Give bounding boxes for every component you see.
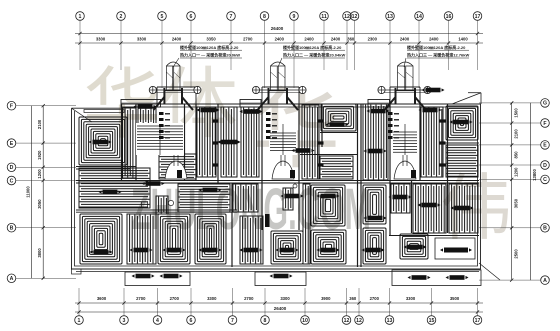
svg-text:3300: 3300	[406, 296, 416, 301]
axis bubble G right	[541, 99, 550, 108]
svg-text:3050: 3050	[37, 199, 42, 209]
label tag at 141,250	[134, 248, 149, 253]
axis bubble 7 bottom	[228, 316, 237, 325]
heating coil room 25	[449, 184, 478, 233]
axis bubble 2 top	[117, 12, 126, 21]
label tag at 145,106.5	[138, 104, 153, 109]
heating coil room 18	[233, 184, 258, 212]
valve mark	[318, 141, 324, 144]
top total dimension line	[75, 33, 483, 35]
label tag at 328,250	[321, 248, 336, 253]
wall y=166.5	[76, 166, 136, 168]
label tag at 430,110	[423, 108, 438, 113]
svg-text:F: F	[10, 104, 13, 110]
heating coil room 21	[311, 185, 345, 226]
svg-text:360: 360	[349, 296, 357, 301]
label tag at 143,276	[136, 274, 151, 279]
svg-text:11: 11	[321, 14, 327, 20]
axis bubble C left	[7, 176, 16, 185]
stair ladder	[392, 129, 418, 156]
svg-text:7: 7	[230, 14, 233, 20]
axis bubble E left	[7, 139, 16, 148]
wall y=154.5	[300, 154, 358, 156]
heating coil room 11	[421, 107, 443, 177]
axis bubble F right	[541, 119, 550, 128]
entrance bay walls	[389, 87, 391, 104]
heating coil room 7	[302, 105, 319, 179]
svg-text:3300: 3300	[280, 296, 290, 301]
svg-text:17: 17	[475, 14, 481, 20]
heating coil room 32	[311, 230, 346, 264]
wall y=169	[76, 168, 130, 170]
heating coil room 4	[197, 107, 216, 177]
label tag at 328,196	[321, 194, 336, 199]
svg-text:3300: 3300	[96, 37, 106, 42]
svg-text:1200: 1200	[514, 167, 519, 177]
bottom wall lower line	[76, 271, 479, 273]
bottom chain dimension line	[75, 302, 483, 304]
svg-text:2700: 2700	[136, 296, 146, 301]
valve mark	[213, 163, 219, 166]
riser duct pair	[398, 66, 405, 90]
svg-text:16: 16	[446, 14, 452, 20]
axis bubble 1 bottom	[75, 316, 84, 325]
left total dimension line	[31, 106, 33, 279]
svg-text:B: B	[543, 226, 547, 232]
svg-text:12: 12	[344, 318, 350, 324]
entrance door jambs	[395, 88, 397, 104]
svg-text:850: 850	[514, 151, 519, 159]
label tag at 229,142	[222, 140, 237, 145]
label tag at 100,142	[93, 140, 108, 145]
wall x=447.5	[447, 104, 449, 233]
wall x=196	[195, 104, 197, 180]
svg-text:12: 12	[344, 14, 350, 20]
annotation notes top	[173, 44, 469, 67]
svg-text:1920: 1920	[37, 150, 42, 160]
label tag at 373,250	[366, 248, 381, 253]
axis bubble 10 bottom	[301, 316, 310, 325]
label tag at 153,183.5	[146, 181, 161, 186]
label tag at 378,111	[371, 109, 386, 114]
svg-text:13: 13	[387, 14, 393, 20]
axis bubble 3 bottom	[120, 316, 129, 325]
axis bubble 17 bottom	[473, 316, 482, 325]
axis bubble 14 top	[415, 12, 424, 21]
svg-text:8: 8	[264, 318, 267, 324]
bottom total dimension line	[75, 311, 483, 313]
svg-text:26400: 26400	[271, 26, 284, 31]
heating coil room 16	[156, 196, 168, 214]
label tag at 251,250	[244, 248, 259, 253]
pipe room protrusion	[121, 100, 161, 108]
svg-text:15: 15	[429, 318, 435, 324]
axis bubble 12 top	[350, 12, 359, 21]
svg-text:3600: 3600	[97, 296, 107, 301]
axis bubble A left	[7, 274, 16, 283]
axis bubble 6 bottom	[187, 316, 196, 325]
heating coil room 33	[363, 228, 386, 264]
axis bubble 13 bottom	[385, 316, 394, 325]
svg-text:D: D	[543, 163, 547, 169]
svg-text:E: E	[543, 143, 547, 149]
window sill strip top-left	[84, 110, 124, 113]
label tag at 461,122	[454, 120, 469, 125]
stair ladder	[269, 130, 297, 155]
heating coil room 28	[158, 214, 190, 264]
svg-text:2400: 2400	[275, 37, 285, 42]
label tag at 171,276	[164, 274, 179, 279]
svg-text:14: 14	[416, 14, 422, 20]
heating coil room 27	[127, 214, 156, 264]
svg-text:2500: 2500	[514, 249, 519, 259]
heating coil room 12	[446, 106, 478, 140]
wall y=143	[443, 142, 479, 144]
label tag at 208,110	[201, 108, 216, 113]
svg-text:2400: 2400	[172, 37, 182, 42]
heating coil room 30	[240, 216, 263, 264]
watermark	[83, 60, 512, 249]
svg-text:A: A	[543, 278, 547, 284]
valve mark	[440, 163, 446, 166]
svg-text:热力入口三 — 采暖负荷滚12.76kW: 热力入口三 — 采暖负荷滚12.76kW	[407, 52, 469, 58]
wall x=361	[360, 104, 362, 267]
axis bubble 17 top	[473, 12, 482, 21]
svg-text:E: E	[10, 141, 14, 147]
label tag at 292,196	[285, 194, 300, 199]
svg-text:G: G	[543, 101, 547, 107]
axis bubble A right	[541, 276, 550, 285]
label tag at 287,250	[280, 248, 295, 253]
axis bubble D left	[7, 163, 16, 172]
svg-text:12: 12	[356, 318, 362, 324]
label tag at 303,150.5	[296, 148, 311, 153]
basin	[142, 202, 148, 207]
svg-text:3050: 3050	[514, 198, 519, 208]
label tag at 429,205	[422, 203, 437, 208]
heating coil room 17	[178, 184, 230, 212]
svg-text:2700: 2700	[244, 296, 254, 301]
wall y=235.5	[389, 235, 479, 237]
entrance flare walls	[258, 97, 269, 110]
entrance door jambs	[268, 88, 270, 104]
left chain dimension line	[42, 106, 44, 279]
heating coil room 10	[363, 104, 388, 180]
label tag at 419,277.5	[412, 275, 427, 280]
svg-text:D: D	[10, 165, 14, 171]
svg-text:2700: 2700	[370, 296, 380, 301]
wc fixture circle	[168, 200, 173, 205]
heating coil room 8	[321, 104, 356, 131]
svg-text:13800: 13800	[532, 169, 537, 181]
svg-text:12: 12	[352, 14, 358, 20]
heating coil room 15	[159, 154, 196, 179]
svg-text:2700: 2700	[243, 37, 253, 42]
wall y=132.5	[320, 132, 358, 134]
axis bubble 6 top	[187, 12, 196, 21]
svg-text:10: 10	[302, 318, 308, 324]
heating coil room 2	[123, 108, 137, 178]
heating coil room 31	[271, 231, 303, 264]
heating coil room 9	[320, 156, 353, 179]
wall x=184.5	[184, 104, 186, 180]
axis bubble B right	[541, 224, 550, 233]
svg-text:热力入口一 — 采暖负荷滚20.0kW: 热力入口一 — 采暖负荷滚20.0kW	[180, 52, 240, 58]
svg-text:A: A	[10, 276, 14, 282]
leader line	[173, 58, 179, 67]
entrance bay walls	[261, 87, 263, 104]
heating coil room 14	[79, 168, 150, 208]
label tag at 281,276	[274, 274, 289, 279]
leader line	[404, 58, 406, 67]
wall x=136	[135, 104, 137, 180]
svg-text:3300: 3300	[137, 37, 147, 42]
axis bubble 16 top	[444, 12, 453, 21]
label tag at 251,111.5	[244, 109, 259, 114]
wall y=180.5	[76, 180, 479, 182]
label tag at 433,90	[426, 88, 441, 93]
svg-text:6: 6	[190, 318, 193, 324]
svg-text:2400: 2400	[304, 37, 314, 42]
wall x=420	[419, 104, 421, 180]
interior walls	[72, 104, 482, 286]
svg-text:17: 17	[475, 318, 481, 324]
entrance canopy	[153, 89, 198, 91]
entrance canopy	[256, 89, 303, 91]
heating coil room 29	[195, 214, 226, 264]
axis bubble 1 top	[76, 12, 85, 21]
label tag at 210,250	[203, 248, 218, 253]
svg-text:13: 13	[387, 318, 393, 324]
label tag at 415,247	[408, 245, 423, 250]
axis bubble C right	[541, 175, 550, 184]
axis bubble 12 bottom	[342, 316, 351, 325]
axis bubble 11 top	[320, 12, 329, 21]
wall x=299	[298, 104, 300, 230]
label tag at 110,192	[103, 190, 118, 195]
svg-text:楼外壁道100㎜120A 底标高-2.20: 楼外壁道100㎜120A 底标高-2.20	[283, 44, 342, 50]
heating coil room 1	[79, 117, 127, 165]
label tag at 174,250	[167, 248, 182, 253]
svg-text:2400: 2400	[429, 37, 439, 42]
axis bubble 7 top	[227, 12, 236, 21]
svg-text:3800: 3800	[37, 248, 42, 258]
svg-text:2300: 2300	[368, 37, 378, 42]
valve mark	[318, 163, 324, 166]
balcony box 3	[392, 270, 481, 286]
axis bubble 4 bottom	[153, 316, 162, 325]
label tag at 457,277.5	[450, 275, 465, 280]
svg-text:1: 1	[78, 318, 81, 324]
svg-text:3300: 3300	[207, 296, 217, 301]
chamfer top-right	[452, 93, 481, 104]
svg-text:4: 4	[156, 318, 159, 324]
stairwells	[136, 112, 418, 179]
heating coil room 3	[138, 108, 156, 124]
wall x=390	[389, 104, 391, 235]
svg-text:3500: 3500	[450, 296, 460, 301]
heating coil room 34	[400, 234, 428, 259]
label tag at 375,218	[368, 216, 383, 221]
stair landing	[165, 161, 187, 179]
axis bubble 5 top	[158, 12, 167, 21]
stair landing	[394, 161, 416, 179]
svg-text:楼外壁道100㎜120A 底标高-2.20: 楼外壁道100㎜120A 底标高-2.20	[180, 44, 239, 50]
svg-text:2100: 2100	[514, 129, 519, 139]
axis bubble 15 bottom	[427, 316, 436, 325]
entrance flare walls	[153, 97, 164, 110]
wall x=218	[217, 104, 219, 183]
diagonal chamfer top-left	[72, 108, 93, 122]
stair landing	[272, 161, 294, 179]
riser duct pair	[271, 66, 278, 90]
svg-text:26400: 26400	[274, 306, 287, 311]
svg-text:伟: 伟	[440, 169, 512, 249]
svg-text:2400: 2400	[331, 37, 341, 42]
heating coil room 19	[283, 188, 293, 210]
balcony box 2	[255, 272, 306, 286]
boiler box	[435, 238, 475, 259]
svg-text:F: F	[543, 121, 546, 127]
diagonal canopy line bottom-right	[479, 263, 500, 280]
axis bubble 8 bottom	[261, 316, 270, 325]
svg-text:8: 8	[263, 14, 266, 20]
right total dimension line	[530, 103, 532, 280]
wall stub black	[265, 214, 270, 227]
axis bubble E right	[541, 141, 550, 150]
entrance canopy	[382, 89, 428, 91]
label tag at 210,190	[203, 188, 218, 193]
label tag at 101,252	[94, 250, 109, 255]
label tag at 337,124.5	[330, 122, 345, 127]
heating coil room 6	[241, 107, 259, 177]
axis bubble 9 top	[290, 12, 299, 21]
svg-text:5: 5	[161, 14, 164, 20]
svg-text:11000: 11000	[26, 186, 31, 198]
building outer walls	[72, 62, 501, 280]
svg-text:1: 1	[79, 14, 82, 20]
svg-text:热力入口二 — 采暖负荷滚20.04kW: 热力入口二 — 采暖负荷滚20.04kW	[283, 52, 345, 58]
svg-text:C: C	[10, 178, 14, 184]
label tag at 462,208	[455, 206, 470, 211]
balcony box 1	[125, 272, 190, 286]
left section top wall	[72, 107, 125, 109]
wall x=411.5	[411, 180, 413, 233]
valve mark	[440, 141, 446, 144]
wall y=210	[76, 209, 237, 211]
axis bubble 13 top	[386, 12, 395, 21]
svg-text:2700: 2700	[170, 296, 180, 301]
leader line	[278, 58, 282, 67]
svg-text:2400: 2400	[400, 37, 410, 42]
valve mark	[318, 119, 324, 122]
heating coil room 24	[413, 184, 446, 233]
svg-text:B: B	[10, 226, 14, 232]
wall x=121.5	[121, 104, 123, 180]
label tag at 375,151	[368, 149, 383, 154]
heating coil room 13	[446, 145, 478, 177]
svg-text:楼外壁道100㎜120A 底标高-2.20: 楼外壁道100㎜120A 底标高-2.20	[407, 44, 466, 50]
valve mark	[213, 119, 219, 122]
svg-text:7: 7	[231, 318, 234, 324]
svg-text:1200: 1200	[37, 169, 42, 179]
manifold circle	[293, 184, 297, 188]
svg-text:360: 360	[347, 37, 355, 42]
axis bubble B left	[7, 223, 16, 232]
heating coil room 20	[303, 184, 310, 264]
valve mark	[213, 141, 219, 144]
right chain dimension line	[511, 103, 513, 280]
stair ladder	[136, 123, 184, 155]
svg-text:1400: 1400	[458, 37, 468, 42]
wall x=232	[231, 183, 233, 267]
axis bubble 8 top	[260, 12, 269, 21]
svg-text:6: 6	[190, 14, 193, 20]
pipe room protrusion	[240, 100, 261, 108]
top chain dimension line	[75, 42, 483, 44]
entrance flare walls	[385, 97, 396, 110]
riser duct pair	[166, 66, 172, 90]
svg-text:3: 3	[123, 318, 126, 324]
entrance bay walls	[156, 87, 158, 104]
axis bubble D right	[541, 161, 550, 170]
heating coil room 26	[80, 214, 122, 264]
wall x=357.5	[357, 104, 359, 267]
wall x=322	[321, 104, 323, 147]
heating coil room 5	[221, 107, 237, 177]
wall x=262	[261, 104, 263, 230]
axis bubble F left	[7, 101, 16, 110]
wall y=212.2	[76, 211, 237, 213]
svg-text:2: 2	[120, 14, 123, 20]
svg-text:3900: 3900	[321, 296, 331, 301]
svg-text:C: C	[543, 177, 547, 183]
heating coil room 23	[391, 184, 410, 213]
axis bubble 12 bottom	[355, 316, 364, 325]
valve mark	[440, 119, 446, 122]
axis bubble 12 top	[343, 12, 352, 21]
label tag at 400,197	[393, 195, 408, 200]
wall y=183	[76, 182, 479, 184]
svg-text:2100: 2100	[37, 119, 42, 129]
svg-text:9: 9	[293, 14, 296, 20]
entrance door jambs	[163, 88, 165, 104]
pipe room protrusion	[368, 100, 390, 108]
heating coil room 22	[363, 185, 386, 224]
svg-text:3350: 3350	[206, 37, 216, 42]
svg-text:1500: 1500	[514, 108, 519, 118]
